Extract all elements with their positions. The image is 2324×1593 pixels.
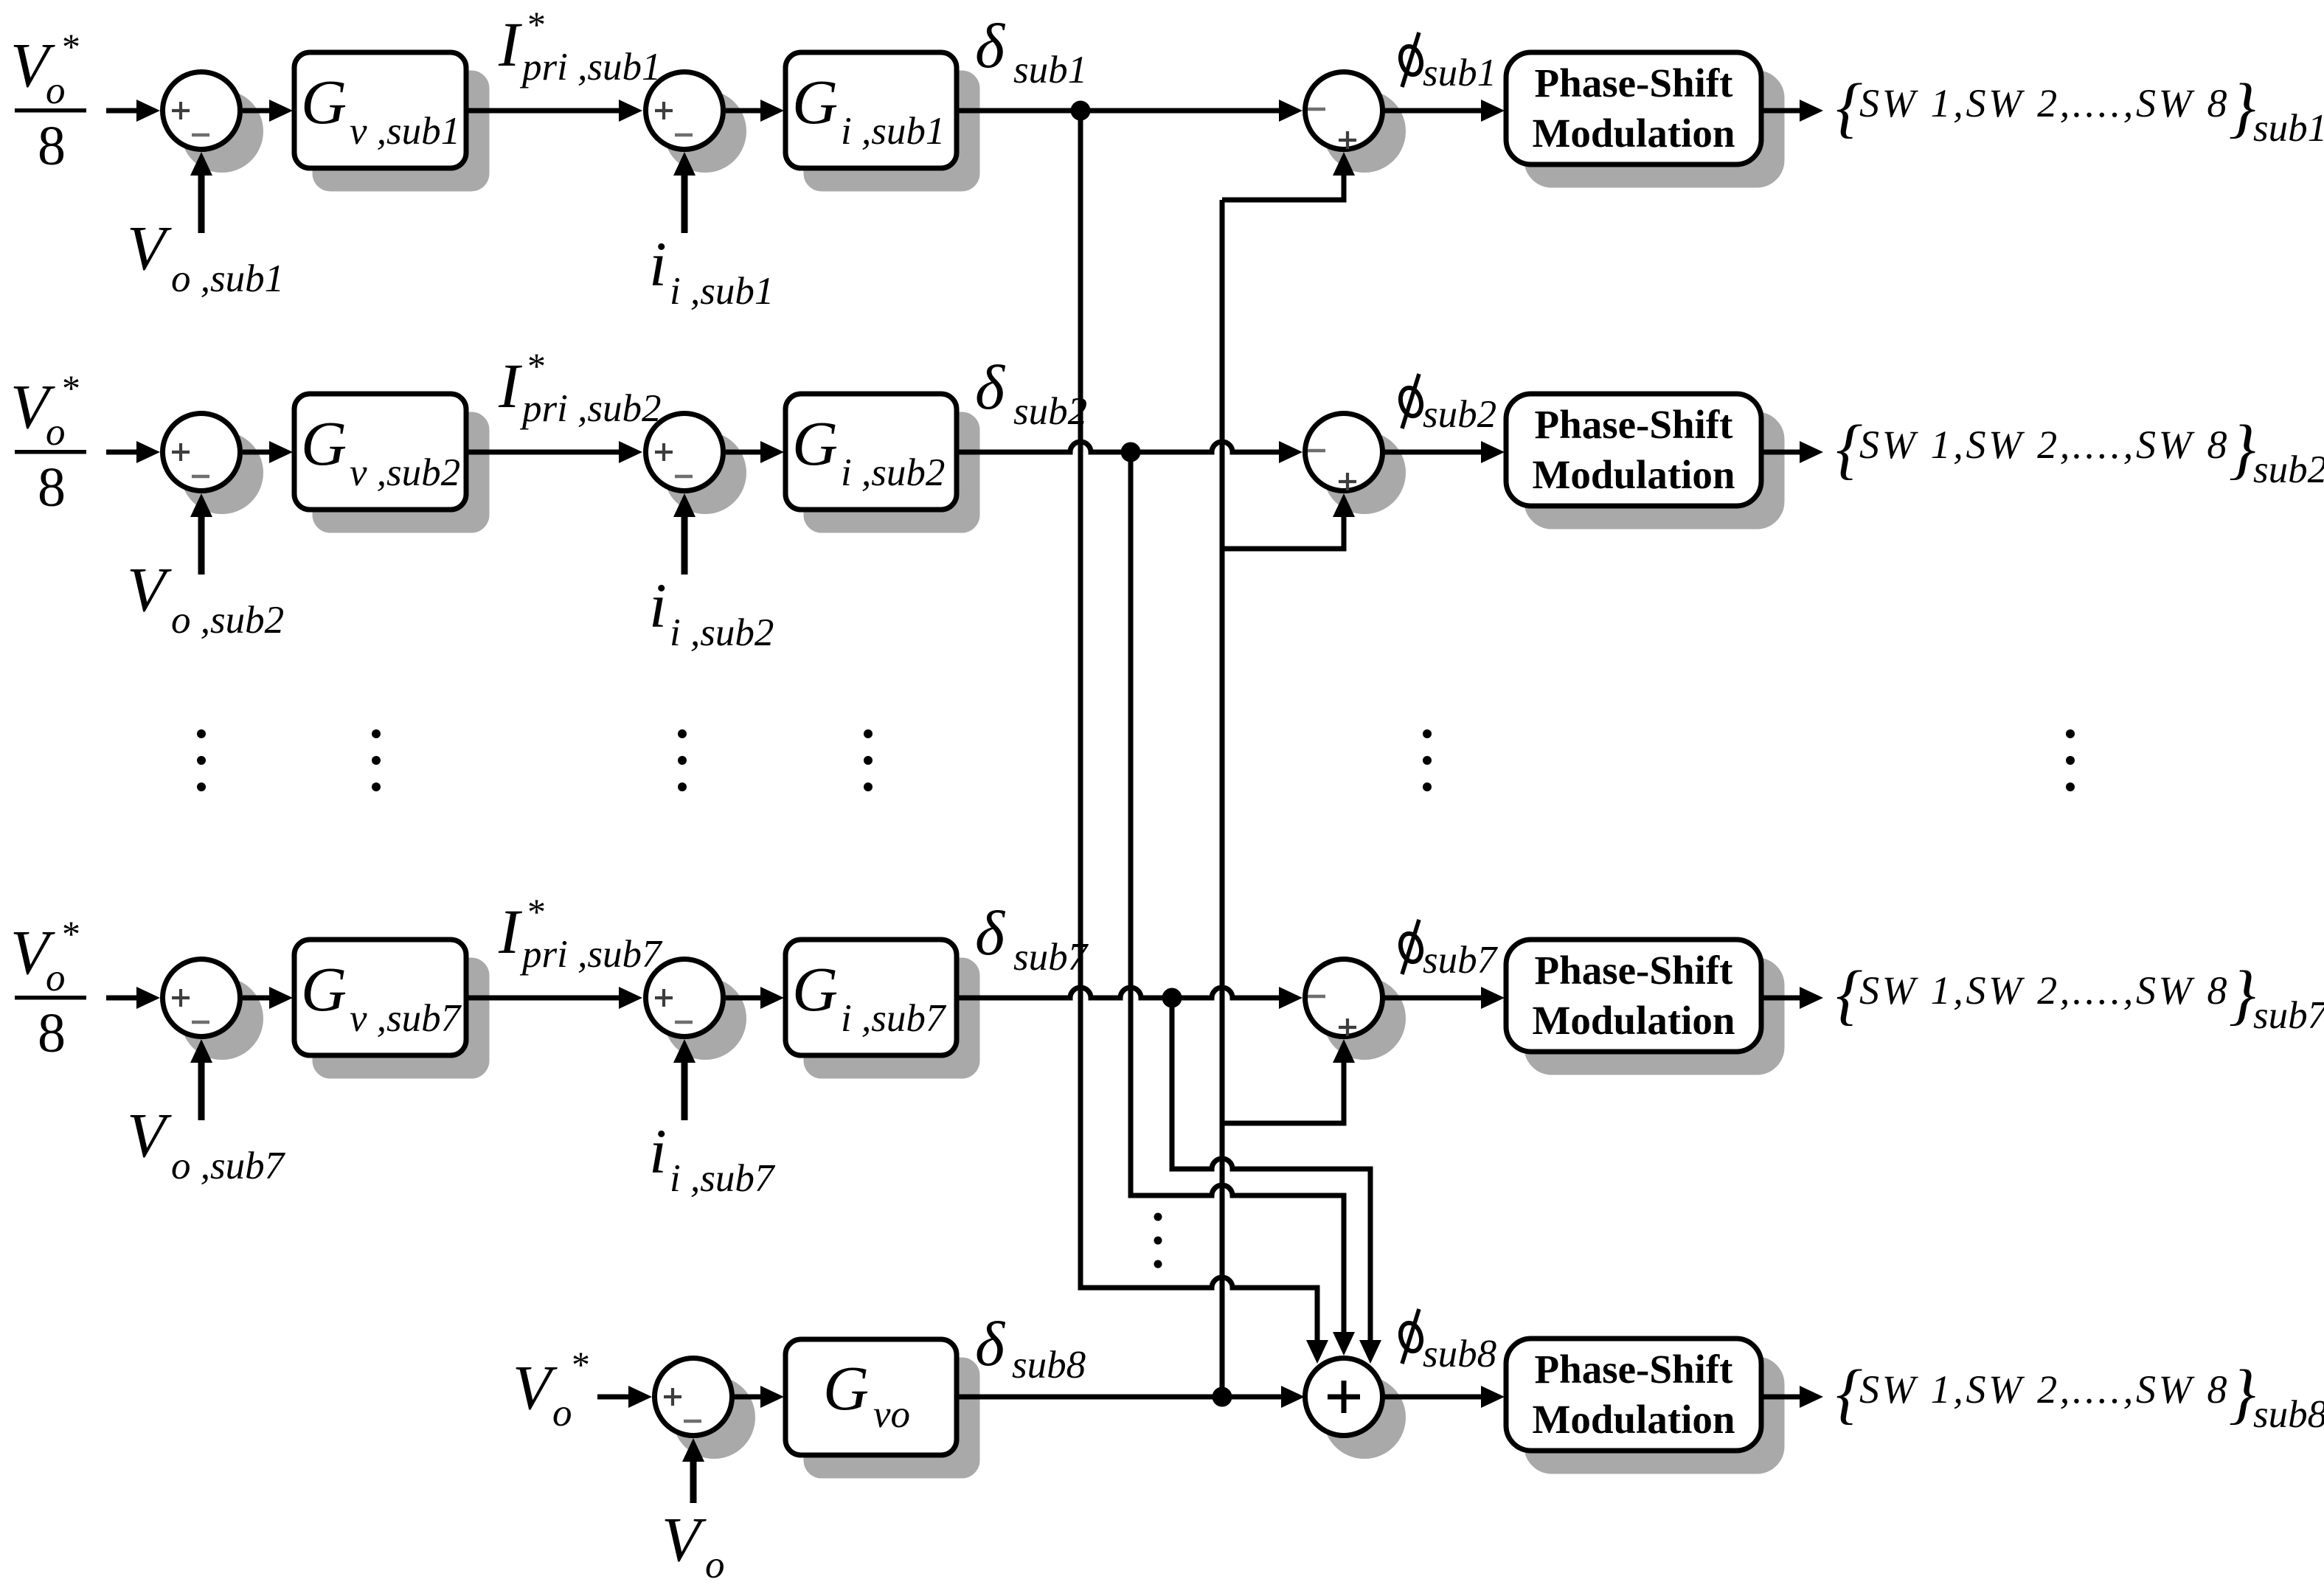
ellipsis continuation dots for drop lines <box>1154 1213 1162 1268</box>
summing junction phase row sub8 <box>1305 1358 1404 1457</box>
svg-text:i ,sub1: i ,sub1 <box>670 270 774 313</box>
svg-text:*: * <box>572 1344 590 1385</box>
block Phase-Shift Modulation row sub2 <box>1506 394 1782 527</box>
svg-text:i ,sub7: i ,sub7 <box>841 997 947 1040</box>
node Vo,sub2 feedback label <box>127 554 284 642</box>
wire delta sub8 feed into phase summing junction row sub2 <box>1222 493 1355 549</box>
wire phase summing junction to modulator row sub7 <box>1384 987 1505 1009</box>
wire feedback Vo into summing junction row sub8 <box>682 1438 704 1503</box>
node Vo*/8 reference label row sub2 <box>10 367 86 518</box>
junction node delta sub7 tap <box>1162 988 1182 1008</box>
node ii,sub1 feedback label <box>649 229 774 313</box>
svg-text:sub8: sub8 <box>1423 1333 1496 1375</box>
svg-text:o: o <box>46 957 66 999</box>
block Gv,sub1 voltage controller <box>294 52 487 189</box>
node SW output set label sub2 <box>1836 412 2324 491</box>
svg-text:*: * <box>527 345 546 386</box>
svg-text:Modulation: Modulation <box>1532 452 1735 497</box>
node Vo*/8 reference label row sub1 <box>10 26 86 177</box>
wire input Vo* to summing junction row sub8 <box>597 1386 652 1408</box>
wire current summing junction to Gi,sub7 <box>726 987 784 1009</box>
block Gv,sub7 voltage controller <box>294 940 487 1076</box>
block Gi,sub7 current controller <box>785 940 977 1076</box>
svg-text:8: 8 <box>38 457 66 518</box>
svg-text:}: } <box>2229 70 2255 145</box>
node ii,sub7 feedback label <box>649 1116 776 1200</box>
svg-text:sub7: sub7 <box>1013 936 1089 979</box>
svg-text:o: o <box>705 1544 725 1586</box>
block Phase-Shift Modulation row sub8 <box>1506 1339 1782 1471</box>
svg-text:{: { <box>1836 412 1862 486</box>
svg-text:G: G <box>301 954 347 1024</box>
block Gi,sub1 current controller <box>785 52 977 189</box>
node Vo*/8 reference label row sub7 <box>10 913 86 1064</box>
svg-text:sub1: sub1 <box>1423 52 1496 94</box>
wire feedback ii,sub1 into current summing junction <box>673 152 696 233</box>
svg-text:I: I <box>498 350 522 421</box>
wire Gv,sub7 to current summing junction <box>466 987 642 1009</box>
svg-text:{: { <box>1836 957 1862 1032</box>
node Vo feedback label row sub8 <box>662 1504 725 1586</box>
svg-text:Modulation: Modulation <box>1532 111 1735 156</box>
svg-text:i ,sub1: i ,sub1 <box>841 110 945 153</box>
svg-text:SW 1,SW 2,....,SW 8: SW 1,SW 2,....,SW 8 <box>1859 968 2230 1013</box>
node Vo,sub1 feedback label <box>127 212 284 300</box>
svg-text:o: o <box>552 1392 572 1434</box>
svg-text:pri ,sub2: pri ,sub2 <box>519 387 661 430</box>
svg-text:G: G <box>792 954 838 1024</box>
svg-text:G: G <box>823 1353 869 1423</box>
wire delta sub8 from Gvo to phase summing junction <box>957 1386 1305 1408</box>
svg-text:{: { <box>1836 70 1862 145</box>
svg-text:i: i <box>649 570 667 641</box>
svg-text:i: i <box>649 1116 667 1187</box>
svg-text:*: * <box>527 891 546 932</box>
wire delta sub1 drop line to sub8 summing junction <box>1081 111 1328 1364</box>
wire Gv,sub1 to current summing junction <box>466 100 642 122</box>
svg-text:o ,sub2: o ,sub2 <box>171 599 284 642</box>
svg-text:G: G <box>301 66 347 137</box>
svg-text:I: I <box>498 9 522 80</box>
svg-text:sub2: sub2 <box>1423 393 1496 436</box>
svg-text:SW 1,SW 2,....,SW 8: SW 1,SW 2,....,SW 8 <box>1859 423 2230 467</box>
svg-text:pri ,sub1: pri ,sub1 <box>519 46 661 88</box>
node SW output set label sub7 <box>1836 957 2324 1037</box>
summing junction voltage error row sub2 <box>163 414 261 512</box>
svg-text:}: } <box>2229 957 2255 1032</box>
node delta sub1 label <box>975 10 1087 91</box>
block Phase-Shift Modulation row sub1 <box>1506 52 1782 185</box>
wire input reference to voltage summing junction row sub7 <box>106 987 160 1009</box>
node Ipri,sub7 current reference label <box>498 891 663 976</box>
summing junction phase row sub2 <box>1305 414 1404 512</box>
svg-text:V: V <box>127 1100 172 1170</box>
svg-text:sub1: sub1 <box>1013 49 1087 91</box>
svg-text:Phase-Shift: Phase-Shift <box>1535 1347 1734 1392</box>
wire phase summing junction to modulator row sub1 <box>1384 100 1505 122</box>
wire phase summing junction to modulator row sub2 <box>1384 441 1505 463</box>
wire input reference to voltage summing junction row sub1 <box>106 100 160 122</box>
svg-text:o ,sub7: o ,sub7 <box>171 1145 286 1187</box>
svg-text:v ,sub2: v ,sub2 <box>350 451 460 494</box>
svg-text:sub7: sub7 <box>2253 994 2324 1037</box>
block Gi,sub2 current controller <box>785 394 977 530</box>
svg-text:i ,sub2: i ,sub2 <box>670 611 774 654</box>
wire feedback ii,sub7 into current summing junction <box>673 1039 696 1120</box>
wire Gv,sub2 to current summing junction <box>466 441 642 463</box>
wire feedback ii,sub2 into current summing junction <box>673 493 696 575</box>
svg-text:*: * <box>527 4 546 45</box>
wire summing junction to Gvo <box>734 1386 784 1408</box>
svg-text:G: G <box>792 408 838 479</box>
summing junction voltage error row sub8 <box>655 1358 753 1457</box>
svg-text:v ,sub7: v ,sub7 <box>350 997 462 1040</box>
svg-text:V: V <box>127 554 172 625</box>
svg-text:{: { <box>1836 1356 1862 1431</box>
summing junction phase row sub1 <box>1305 72 1404 170</box>
node phi sub1 label <box>1398 32 1496 94</box>
wire current summing junction to Gi,sub1 <box>726 100 784 122</box>
svg-text:8: 8 <box>38 1002 66 1064</box>
svg-text:sub1: sub1 <box>2253 107 2324 150</box>
ellipsis continuation dots between sub2 and sub7 rows <box>197 729 2075 791</box>
summing junction phase row sub7 <box>1305 959 1404 1058</box>
wire delta sub2 drop line to sub8 summing junction <box>1131 452 1355 1356</box>
svg-text:sub8: sub8 <box>1012 1344 1086 1386</box>
svg-text:i: i <box>649 229 667 299</box>
svg-text:pri ,sub7: pri ,sub7 <box>519 933 663 976</box>
wire delta sub7 drop line to sub8 summing junction <box>1172 998 1381 1364</box>
wire modulator output row sub7 <box>1761 987 1823 1009</box>
svg-text:SW 1,SW 2,....,SW 8: SW 1,SW 2,....,SW 8 <box>1859 81 2230 125</box>
svg-text:Phase-Shift: Phase-Shift <box>1535 402 1734 447</box>
wire modulator output row sub1 <box>1761 100 1823 122</box>
node delta sub7 label <box>975 898 1089 979</box>
wire delta sub7 from Gi,sub7 to phase summing junction <box>957 987 1303 1009</box>
wire phase summing junction to modulator row sub8 <box>1384 1386 1505 1408</box>
svg-text:*: * <box>62 913 80 954</box>
svg-text:sub7: sub7 <box>1423 939 1499 982</box>
node Vo,sub7 feedback label <box>127 1100 286 1187</box>
wire feedback Vo,sub2 into voltage summing junction <box>190 493 212 575</box>
svg-text:v ,sub1: v ,sub1 <box>350 110 460 153</box>
wire current summing junction to Gi,sub2 <box>726 441 784 463</box>
svg-text:}: } <box>2229 1356 2255 1431</box>
svg-text:i ,sub7: i ,sub7 <box>670 1157 776 1200</box>
summing junction current error row sub1 <box>646 72 744 170</box>
wire input reference to voltage summing junction row sub2 <box>106 441 160 463</box>
svg-text:δ: δ <box>975 1308 1006 1379</box>
wire voltage summing junction to Gv,sub7 <box>243 987 293 1009</box>
svg-text:V: V <box>513 1352 558 1423</box>
svg-text:V: V <box>127 212 172 283</box>
svg-text:sub2: sub2 <box>1013 390 1087 433</box>
node Vo* reference label row sub8 <box>513 1344 590 1434</box>
svg-text:Modulation: Modulation <box>1532 1397 1735 1442</box>
svg-text:8: 8 <box>38 115 66 177</box>
svg-text:G: G <box>301 408 347 479</box>
wire modulator output row sub8 <box>1761 1386 1823 1408</box>
svg-text:*: * <box>62 367 80 409</box>
wire feedback Vo,sub1 into voltage summing junction <box>190 152 212 233</box>
node SW output set label sub1 <box>1836 70 2324 150</box>
summing junction voltage error row sub1 <box>163 72 261 170</box>
svg-text:i ,sub2: i ,sub2 <box>841 451 945 494</box>
svg-text:I: I <box>498 896 522 967</box>
node SW output set label sub8 <box>1836 1356 2324 1436</box>
wire delta sub2 from Gi,sub2 to phase summing junction <box>957 441 1303 463</box>
junction node delta sub1 tap <box>1071 101 1091 121</box>
svg-text:Phase-Shift: Phase-Shift <box>1535 948 1734 993</box>
block Phase-Shift Modulation row sub7 <box>1506 940 1782 1072</box>
wire delta sub8 feed into phase summing junction row sub1 <box>1222 152 1355 200</box>
node delta sub8 label <box>975 1308 1086 1386</box>
svg-text:δ: δ <box>975 898 1006 968</box>
wire modulator output row sub2 <box>1761 441 1823 463</box>
svg-text:δ: δ <box>975 10 1006 81</box>
svg-text:Phase-Shift: Phase-Shift <box>1535 60 1734 105</box>
svg-text:sub8: sub8 <box>2253 1393 2324 1436</box>
node Ipri,sub1 current reference label <box>498 4 661 88</box>
node Ipri,sub2 current reference label <box>498 345 661 430</box>
svg-text:G: G <box>792 66 838 137</box>
summing junction current error row sub7 <box>646 959 744 1058</box>
node ii,sub2 feedback label <box>649 570 774 654</box>
svg-text:o ,sub1: o ,sub1 <box>171 257 284 300</box>
svg-text:o: o <box>46 69 66 112</box>
block Gvo total voltage controller <box>785 1339 977 1476</box>
node delta sub2 label <box>975 352 1087 433</box>
junction node delta sub8 tap <box>1213 1387 1232 1407</box>
summing junction current error row sub2 <box>646 414 744 512</box>
wire delta sub1 from Gi,sub1 to phase summing junction <box>957 100 1303 122</box>
node phi sub2 label <box>1398 374 1496 436</box>
svg-text:*: * <box>62 26 80 67</box>
svg-text:δ: δ <box>975 352 1006 423</box>
junction node delta sub2 tap <box>1121 442 1141 462</box>
svg-text:sub2: sub2 <box>2253 448 2324 491</box>
wire delta sub8 feed into phase summing junction row sub7 <box>1222 1039 1355 1123</box>
wire feedback Vo,sub7 into voltage summing junction <box>190 1039 212 1120</box>
summing junction voltage error row sub7 <box>163 959 261 1058</box>
svg-text:vo: vo <box>873 1393 910 1436</box>
svg-text:V: V <box>662 1504 707 1575</box>
wire voltage summing junction to Gv,sub1 <box>243 100 293 122</box>
wire delta sub8 distribution riser <box>1220 200 1225 1397</box>
svg-text:SW 1,SW 2,....,SW 8: SW 1,SW 2,....,SW 8 <box>1859 1367 2230 1412</box>
node phi sub8 label <box>1398 1309 1496 1375</box>
svg-text:o: o <box>46 411 66 454</box>
block Gv,sub2 voltage controller <box>294 394 487 530</box>
wire voltage summing junction to Gv,sub2 <box>243 441 293 463</box>
svg-text:}: } <box>2229 412 2255 486</box>
svg-text:Modulation: Modulation <box>1532 998 1735 1043</box>
node phi sub7 label <box>1398 920 1499 982</box>
